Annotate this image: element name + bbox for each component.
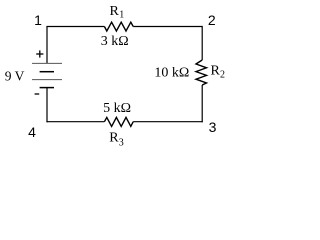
svg-text:3: 3 (119, 138, 124, 149)
wire R2 to node 3 (right vertical lower) (201, 85, 203, 122)
battery plate long lower (32, 79, 62, 81)
resistor R2 (196, 60, 207, 85)
battery positive terminal sign + (36, 50, 43, 57)
wire R1 to node 2 (top-right horizontal) (133, 26, 202, 28)
svg-text:9 V: 9 V (5, 68, 25, 83)
wire node 1 to R1 (top-left horizontal) (46, 26, 104, 28)
svg-text:R: R (110, 4, 120, 19)
svg-text:R: R (109, 131, 119, 146)
battery plate long top (32, 62, 62, 64)
resistor R1 (104, 22, 133, 31)
svg-text:1: 1 (34, 12, 42, 28)
wire battery - to node 4 (left vertical lower) (46, 88, 48, 123)
wire node 1 to battery + (left vertical upper) (46, 27, 48, 64)
battery plate short bottom (40, 87, 54, 89)
resistor R3 (104, 117, 133, 126)
svg-text:4: 4 (28, 124, 36, 140)
svg-text:3 kΩ: 3 kΩ (101, 34, 129, 49)
svg-text:1: 1 (119, 10, 124, 21)
svg-text:2: 2 (208, 12, 216, 28)
svg-text:R: R (211, 63, 221, 78)
wire node 2 to R2 (right vertical upper) (201, 26, 203, 60)
wire node 3 to R3 (bottom-right horizontal) (133, 121, 203, 123)
svg-text:2: 2 (220, 69, 225, 80)
battery plate short upper (40, 71, 54, 73)
svg-text:5 kΩ: 5 kΩ (103, 101, 131, 116)
battery negative terminal sign - (35, 93, 40, 95)
battery V1 9 V (32, 63, 62, 87)
svg-text:10 kΩ: 10 kΩ (154, 65, 189, 80)
svg-text:3: 3 (209, 119, 217, 135)
wire R3 to node 4 (bottom-left horizontal) (46, 121, 104, 123)
